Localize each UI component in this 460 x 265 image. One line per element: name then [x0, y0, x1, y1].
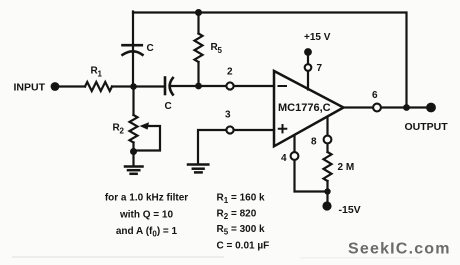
svg-text:C: C	[165, 101, 172, 112]
svg-text:and A (f0) = 1: and A (f0) = 1	[116, 226, 178, 239]
svg-text:C = 0.01 µF: C = 0.01 µF	[217, 241, 270, 252]
svg-text:INPUT: INPUT	[14, 82, 46, 94]
svg-text:R2 = 820: R2 = 820	[217, 209, 257, 222]
svg-text:4: 4	[281, 153, 287, 164]
svg-text:8: 8	[311, 137, 317, 148]
svg-text:1: 1	[98, 70, 103, 79]
svg-text:R1 = 160 k: R1 = 160 k	[217, 193, 266, 206]
svg-text:7: 7	[317, 63, 323, 74]
svg-text:2: 2	[120, 127, 125, 136]
svg-text:with Q = 10: with Q = 10	[119, 210, 174, 221]
svg-text:5: 5	[218, 46, 223, 55]
svg-text:C: C	[147, 43, 154, 54]
svg-text:3: 3	[225, 110, 231, 121]
svg-text:for a 1.0 kHz filter: for a 1.0 kHz filter	[105, 193, 188, 204]
svg-text:SeekIC.com: SeekIC.com	[348, 241, 451, 258]
svg-text:MC1776,C: MC1776,C	[278, 102, 331, 114]
svg-text:2 M: 2 M	[338, 162, 355, 173]
svg-text:6: 6	[372, 90, 378, 101]
svg-text:2: 2	[227, 67, 233, 78]
svg-text:R5 = 300 k: R5 = 300 k	[217, 224, 266, 237]
svg-text:+15 V: +15 V	[304, 32, 331, 43]
svg-text:OUTPUT: OUTPUT	[405, 121, 449, 133]
svg-text:-15V: -15V	[339, 204, 361, 216]
